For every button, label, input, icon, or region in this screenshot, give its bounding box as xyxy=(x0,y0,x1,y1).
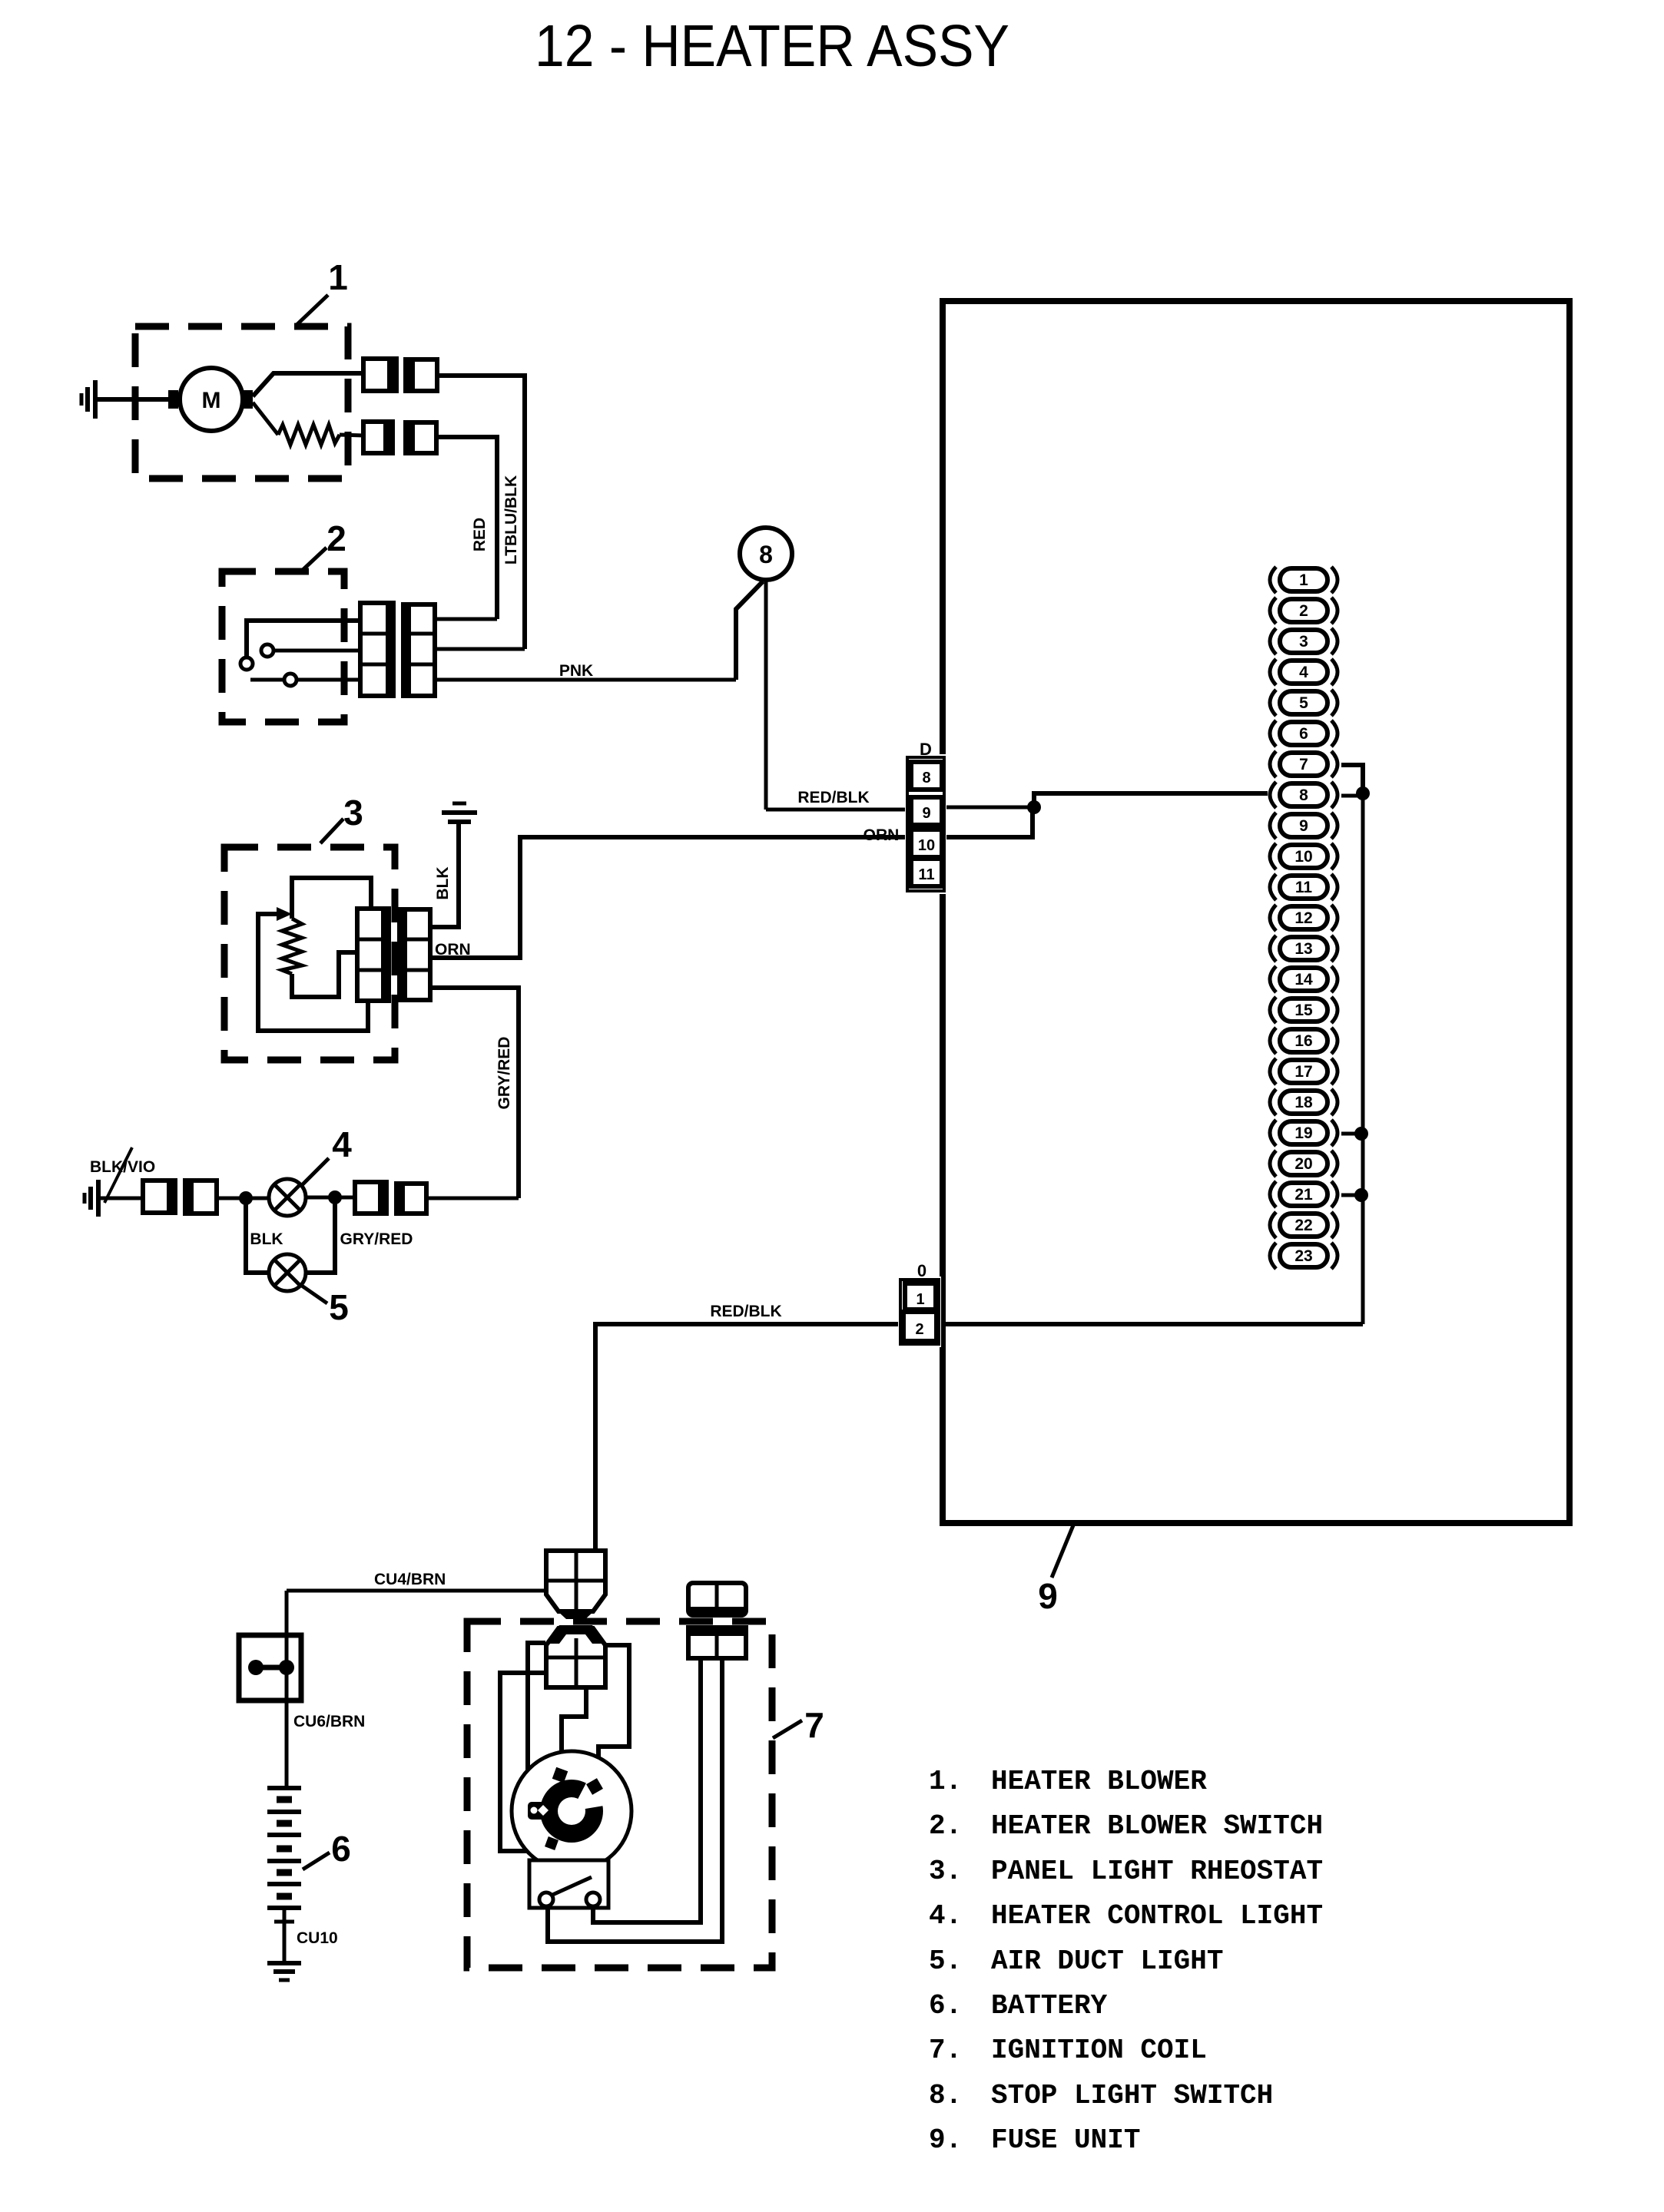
legend item 1 xyxy=(929,1766,1207,1797)
svg-text:4: 4 xyxy=(332,1124,352,1164)
rheostat bottom path to mid pin xyxy=(292,952,358,997)
svg-text:CU6/BRN: CU6/BRN xyxy=(293,1713,365,1730)
contact breaker terminal right xyxy=(586,1892,600,1906)
svg-text:6: 6 xyxy=(331,1829,351,1869)
wire bottom contact left xyxy=(250,678,284,682)
svg-text:HEATER BLOWER: HEATER BLOWER xyxy=(991,1766,1207,1797)
ignition coil box 7 (dashed) xyxy=(467,1621,772,1968)
connector pin 4b xyxy=(185,1181,217,1214)
rheostat wiper path xyxy=(258,914,368,1031)
connector D cell 9 xyxy=(911,797,942,825)
wire connector to lamp 4 xyxy=(217,1197,269,1200)
junction node (fuse 19) xyxy=(1354,1127,1368,1141)
svg-text:1: 1 xyxy=(916,1291,924,1308)
wire coil left loop xyxy=(500,1673,548,1851)
connector pin 5b xyxy=(396,1184,426,1214)
rheostat wiper arrow xyxy=(277,907,292,921)
label 2 leader xyxy=(302,548,327,571)
fuse 10 xyxy=(1270,843,1337,869)
svg-text:15: 15 xyxy=(1294,1002,1313,1019)
battery 6 xyxy=(267,1788,301,1908)
svg-text:21: 21 xyxy=(1294,1186,1313,1204)
svg-text:1.: 1. xyxy=(929,1766,962,1797)
battery switch contacts xyxy=(248,1660,294,1675)
wire coil connector to distributor left terminal xyxy=(562,1689,586,1774)
rheostat top loop xyxy=(292,878,371,919)
svg-text:7: 7 xyxy=(804,1705,824,1745)
fuse 5 xyxy=(1270,690,1337,716)
lamp 4 (heater control light) xyxy=(269,1179,306,1216)
svg-text:6.: 6. xyxy=(929,1990,962,2022)
wire coil right cell a down xyxy=(593,1658,701,1922)
svg-text:4: 4 xyxy=(1299,664,1308,681)
svg-text:19: 19 xyxy=(1294,1124,1312,1142)
wire junction to fuse 8 xyxy=(1034,793,1268,807)
heater blower box 1 (dashed) xyxy=(135,326,348,478)
resistor (blower) xyxy=(278,425,340,445)
wire cell 10 riser xyxy=(944,811,1033,837)
legend item 8 xyxy=(929,2080,1273,2111)
connector D outline xyxy=(905,754,946,894)
connector (coil right upper) xyxy=(688,1583,746,1615)
motor M xyxy=(168,368,253,431)
svg-text:7.: 7. xyxy=(929,2035,962,2066)
svg-text:HEATER BLOWER SWITCH: HEATER BLOWER SWITCH xyxy=(991,1810,1323,1842)
connector O outline xyxy=(898,1277,941,1347)
svg-text:PANEL LIGHT RHEOSTAT: PANEL LIGHT RHEOSTAT xyxy=(991,1856,1323,1887)
ground (lamp circuit) xyxy=(85,1180,98,1217)
legend item 3 xyxy=(929,1856,1323,1887)
connector O cell 1 xyxy=(905,1283,936,1310)
legend item 9 xyxy=(929,2124,1140,2156)
svg-text:ORN: ORN xyxy=(863,826,900,844)
wire bus to cell 2 / RED-BLK lower xyxy=(595,1324,1363,1552)
connector (coil right lower) xyxy=(688,1628,746,1658)
svg-text:HEATER CONTROL LIGHT: HEATER CONTROL LIGHT xyxy=(991,1900,1323,1932)
label 5 leader xyxy=(300,1284,327,1303)
svg-text:17: 17 xyxy=(1294,1063,1312,1081)
label 3 leader xyxy=(320,819,343,843)
wire fuse 19 feed xyxy=(1341,1132,1361,1136)
wire fuse 21 feed xyxy=(1341,1194,1361,1197)
fuse 7 xyxy=(1270,751,1337,777)
wire BLK to ground xyxy=(430,822,459,927)
wire ground to connector xyxy=(98,1197,143,1200)
connector (coil top half) xyxy=(546,1551,605,1619)
wire to GRY/RED riser xyxy=(426,1197,519,1200)
svg-text:ORN: ORN xyxy=(435,941,471,959)
svg-text:GRY/RED: GRY/RED xyxy=(340,1230,413,1248)
svg-text:CU10: CU10 xyxy=(297,1929,338,1947)
connector stack 2a xyxy=(360,603,393,696)
fuse unit box 9 xyxy=(943,301,1570,1523)
label 7 leader xyxy=(773,1720,802,1738)
label 6 leader xyxy=(303,1853,330,1869)
ground (heater blower motor) xyxy=(81,380,95,419)
connector stack 3a xyxy=(357,909,389,1001)
svg-text:8: 8 xyxy=(1299,786,1308,804)
svg-text:5.: 5. xyxy=(929,1945,962,1977)
svg-text:3: 3 xyxy=(343,793,363,833)
connector pin 2a xyxy=(363,422,393,453)
wire fuse 7 feed xyxy=(1341,765,1363,790)
svg-text:9: 9 xyxy=(922,805,930,822)
distributor rotor contact xyxy=(528,1802,549,1820)
svg-text:20: 20 xyxy=(1294,1155,1312,1173)
switch terminal (pole) xyxy=(240,657,253,670)
connector pin 1a xyxy=(363,359,396,391)
fuse 13 xyxy=(1270,935,1337,962)
heater blower switch box 2 (dashed) xyxy=(222,571,344,722)
fuse 8 xyxy=(1270,782,1337,808)
fuse 20 xyxy=(1270,1151,1337,1177)
wire coil connector to distributor right terminal xyxy=(598,1645,629,1780)
svg-text:2: 2 xyxy=(327,518,346,558)
connector stack 2b xyxy=(403,604,435,696)
label 4 leader xyxy=(301,1158,329,1186)
fuse 14 xyxy=(1270,966,1337,992)
contact breaker terminal left xyxy=(539,1892,553,1906)
svg-text:23: 23 xyxy=(1294,1247,1312,1265)
distributor terminal (top left) xyxy=(552,1767,568,1783)
wire CU4/BRN xyxy=(287,1589,546,1593)
wire PNK xyxy=(435,678,736,682)
connector D cell 10 xyxy=(911,829,942,857)
ground (rheostat BLK) xyxy=(442,803,477,822)
junction node (right) xyxy=(328,1190,342,1204)
distributor body xyxy=(512,1751,631,1871)
svg-text:CU4/BRN: CU4/BRN xyxy=(374,1571,446,1588)
fuse 19 xyxy=(1270,1120,1337,1146)
label 9 leader xyxy=(1052,1525,1073,1578)
svg-text:8.: 8. xyxy=(929,2080,962,2111)
svg-text:12: 12 xyxy=(1294,909,1312,927)
fuse 2 xyxy=(1270,598,1337,624)
distributor terminal (lower left) xyxy=(545,1836,559,1850)
svg-text:9: 9 xyxy=(1038,1576,1058,1616)
fuse 17 xyxy=(1270,1058,1337,1084)
fuse 21 xyxy=(1270,1181,1337,1207)
wire PNK riser to stop light switch xyxy=(736,581,763,680)
stop light switch 8 xyxy=(740,528,792,580)
label BLK/VIO leader xyxy=(104,1147,132,1203)
distributor rotor ring xyxy=(540,1770,618,1843)
node CU10 tick xyxy=(274,1920,294,1924)
svg-text:2: 2 xyxy=(1299,602,1308,620)
svg-text:18: 18 xyxy=(1294,1094,1313,1111)
fuse 3 xyxy=(1270,628,1337,654)
ground (battery) xyxy=(267,1963,301,1980)
connector pin 2b xyxy=(406,422,436,453)
fuse 1 xyxy=(1270,567,1337,593)
fuse 9 xyxy=(1270,813,1337,839)
svg-text:5: 5 xyxy=(1299,694,1308,712)
fuse 22 xyxy=(1270,1212,1337,1238)
svg-text:RED/BLK: RED/BLK xyxy=(710,1303,781,1320)
junction node (left) xyxy=(239,1191,253,1205)
svg-text:D: D xyxy=(920,740,932,759)
connector pin 1b xyxy=(406,359,437,391)
legend item 2 xyxy=(929,1810,1323,1842)
wire motor to connector (upper) xyxy=(253,373,363,396)
svg-text:3.: 3. xyxy=(929,1856,962,1887)
svg-text:8: 8 xyxy=(922,770,930,786)
svg-text:BATTERY: BATTERY xyxy=(991,1990,1108,2022)
junction node (fuse 21) xyxy=(1354,1188,1368,1202)
svg-text:RED: RED xyxy=(471,518,489,551)
junction node (fuse 8) xyxy=(1356,786,1370,800)
legend item 5 xyxy=(929,1945,1223,1977)
wire lamp 4 to connector xyxy=(306,1196,355,1200)
svg-text:8: 8 xyxy=(759,541,773,568)
svg-text:BLK: BLK xyxy=(434,866,452,899)
svg-text:2.: 2. xyxy=(929,1810,962,1842)
wire GRY/RED (down from rheostat) xyxy=(430,988,519,1198)
lamp 5 (air duct light) xyxy=(269,1254,306,1291)
svg-text:14: 14 xyxy=(1294,971,1313,988)
svg-text:22: 22 xyxy=(1294,1217,1312,1234)
wire left drop to lamp 5 xyxy=(246,1198,269,1273)
svg-text:11: 11 xyxy=(1295,879,1313,896)
panel light rheostat box 3 (dashed) xyxy=(224,847,395,1060)
fuse 12 xyxy=(1270,905,1337,931)
wire drop to battery switch xyxy=(285,1591,289,1635)
wire bottom contact right xyxy=(297,678,360,682)
switch contact wire (top) xyxy=(247,621,360,657)
fuse 23 xyxy=(1270,1243,1337,1269)
battery switch box xyxy=(239,1635,301,1700)
svg-text:7: 7 xyxy=(1299,756,1308,773)
wire fuse 8 feed xyxy=(1341,794,1363,798)
wire battery to ground xyxy=(283,1908,287,1963)
svg-text:AIR DUCT LIGHT: AIR DUCT LIGHT xyxy=(991,1945,1223,1977)
fuse 11 xyxy=(1270,874,1337,900)
switch terminal (bottom) xyxy=(284,674,297,686)
wire mid contact xyxy=(273,649,360,653)
svg-text:11: 11 xyxy=(918,866,934,883)
wire LTBLU/BLK (from pin 1b, down) xyxy=(437,376,525,649)
connector D cell 11 xyxy=(911,859,942,886)
connector (coil bottom half) xyxy=(545,1625,607,1687)
svg-text:9: 9 xyxy=(1299,817,1308,835)
svg-text:3: 3 xyxy=(1299,633,1308,651)
svg-text:GRY/RED: GRY/RED xyxy=(496,1037,513,1110)
svg-text:1: 1 xyxy=(328,257,348,297)
wire coil connector to rotor contact xyxy=(528,1643,545,1805)
svg-text:PNK: PNK xyxy=(559,662,593,680)
fuse 4 xyxy=(1270,659,1337,685)
connector pin 5a xyxy=(355,1182,386,1214)
svg-text:16: 16 xyxy=(1294,1032,1312,1050)
contact breaker box xyxy=(529,1860,608,1908)
wire cell 9 to junction xyxy=(944,806,1034,810)
svg-text:LTBLU/BLK: LTBLU/BLK xyxy=(502,475,520,565)
wire coil right cell b down xyxy=(548,1658,722,1942)
wire RED (from pin 2b, down) xyxy=(436,437,497,619)
svg-text:10: 10 xyxy=(1294,848,1312,866)
svg-text:STOP LIGHT SWITCH: STOP LIGHT SWITCH xyxy=(991,2080,1273,2111)
junction node (fuse feed) xyxy=(1027,800,1041,814)
wire RED to switch xyxy=(435,618,497,621)
switch terminal (mid) xyxy=(261,644,273,657)
svg-text:IGNITION COIL: IGNITION COIL xyxy=(991,2035,1207,2066)
svg-text:M: M xyxy=(202,388,221,413)
connector pin 4a xyxy=(143,1181,175,1213)
label 1 leader xyxy=(296,295,328,326)
svg-text:2: 2 xyxy=(915,1321,923,1338)
svg-text:BLK: BLK xyxy=(250,1230,283,1248)
wire ground to motor xyxy=(95,397,182,402)
wire ORN from rheostat xyxy=(430,837,911,958)
svg-text:10: 10 xyxy=(918,837,935,854)
wire RED/BLK to fuse connector xyxy=(766,808,911,812)
svg-text:5: 5 xyxy=(329,1287,349,1327)
svg-text:4.: 4. xyxy=(929,1900,962,1932)
connector stack 3b xyxy=(399,909,430,1000)
rheostat resistor xyxy=(282,919,302,974)
wire right drop to lamp 5 xyxy=(306,1197,335,1273)
contact breaker lever xyxy=(551,1877,592,1896)
fuse 16 xyxy=(1270,1028,1337,1054)
wire motor to resistor xyxy=(253,402,278,435)
connector D cell 8 xyxy=(911,762,942,790)
svg-text:12 - HEATER ASSY: 12 - HEATER ASSY xyxy=(535,13,1009,79)
legend item 7 xyxy=(929,2035,1207,2066)
fuse 6 xyxy=(1270,720,1337,747)
wire stop light switch drop xyxy=(764,580,768,810)
svg-text:0: 0 xyxy=(917,1261,926,1280)
legend item 6 xyxy=(929,1990,1108,2022)
wire LTBLU/BLK to switch xyxy=(435,647,525,651)
svg-text:FUSE UNIT: FUSE UNIT xyxy=(991,2124,1140,2156)
wire switch through xyxy=(285,1635,289,1788)
fuse 18 xyxy=(1270,1089,1337,1115)
svg-text:13: 13 xyxy=(1294,940,1312,958)
legend item 4 xyxy=(929,1900,1323,1932)
svg-text:RED/BLK: RED/BLK xyxy=(797,789,869,806)
distributor terminal (top right) xyxy=(586,1778,603,1795)
wire bus down right side xyxy=(1361,793,1365,1324)
fuse 15 xyxy=(1270,997,1337,1023)
svg-text:9.: 9. xyxy=(929,2124,962,2156)
svg-text:6: 6 xyxy=(1299,725,1308,743)
svg-text:1: 1 xyxy=(1299,571,1308,589)
wire resistor to connector xyxy=(340,435,363,435)
connector O cell 2 xyxy=(903,1312,936,1341)
